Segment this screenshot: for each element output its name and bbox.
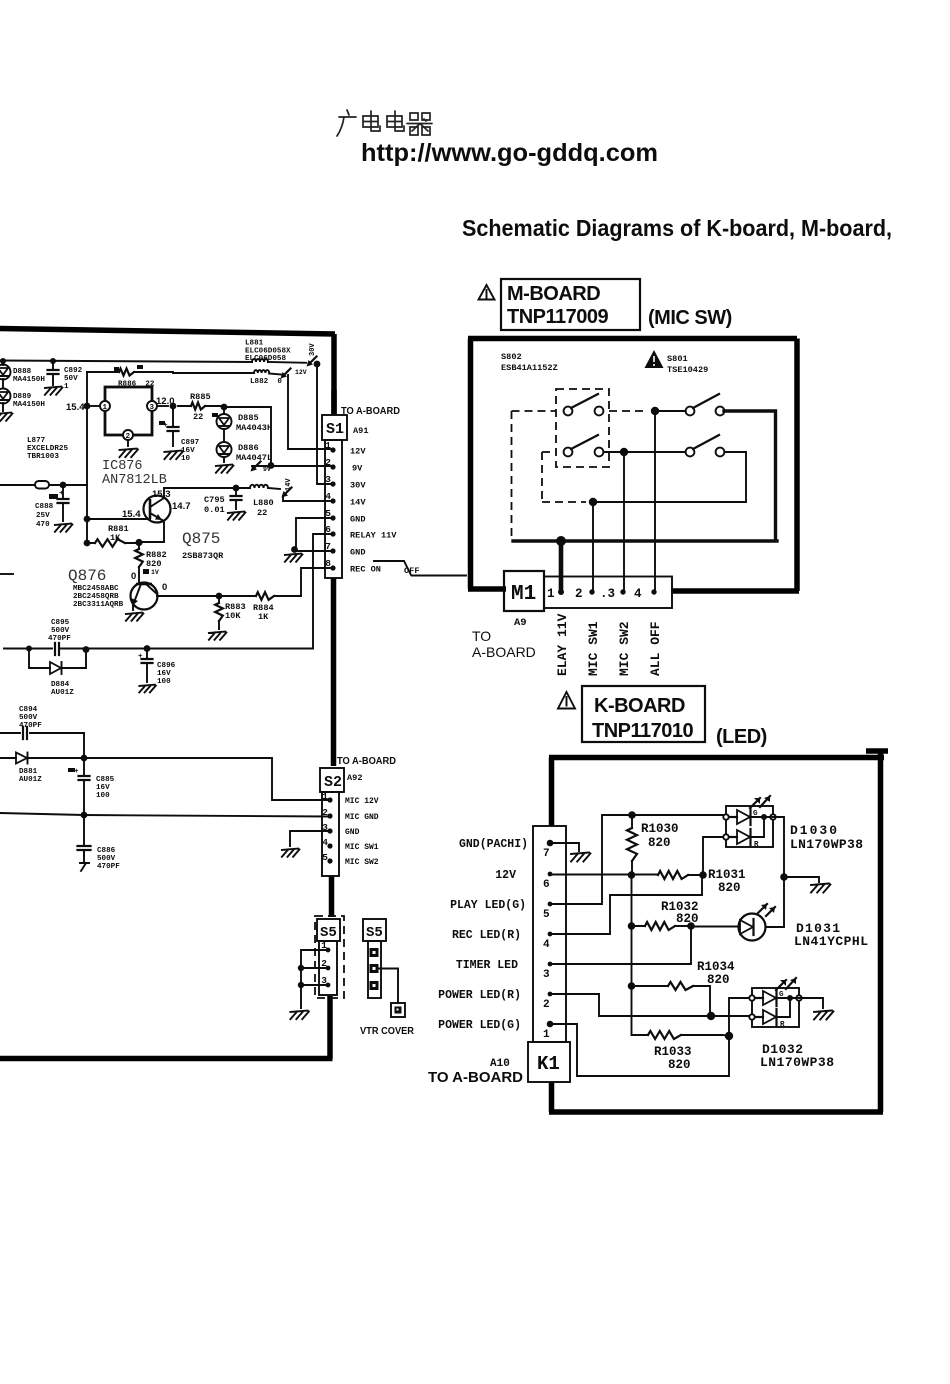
svg-text:R1030: R1030	[641, 822, 679, 836]
main board outline	[0, 329, 335, 1059]
warning triangle S801	[645, 350, 664, 368]
power-R wire pin2	[550, 994, 752, 1016]
mic12v wire	[84, 733, 330, 856]
node D888 rail	[0, 358, 6, 364]
dual LED D1032	[752, 988, 799, 1027]
svg-text:POWER LED(G): POWER LED(G)	[438, 1019, 521, 1032]
collector wire	[164, 487, 236, 489]
timer wire pin3	[550, 926, 691, 964]
svg-text:TNP117009: TNP117009	[507, 306, 609, 328]
capacitor C888	[62, 485, 64, 521]
svg-text:R: R	[754, 841, 759, 849]
vtr cover pin	[391, 1003, 405, 1017]
power-G wire pin1	[550, 1024, 729, 1076]
svg-text:LN170WP38: LN170WP38	[790, 837, 863, 852]
svg-text:D885: D885	[238, 413, 259, 423]
svg-text:PLAY LED(G): PLAY LED(G)	[450, 899, 526, 912]
svg-text:R: R	[780, 1021, 785, 1029]
node R883	[216, 593, 223, 600]
svg-text:C888: C888	[35, 503, 54, 511]
S5 pin strip	[319, 941, 337, 995]
node D884 right	[83, 646, 90, 653]
diode D886	[223, 429, 225, 442]
S1 stub	[331, 390, 337, 415]
svg-text:2BC3311AQRB: 2BC3311AQRB	[73, 601, 124, 609]
warning triangle (M-board)	[479, 285, 495, 300]
M1 pin strip	[544, 577, 672, 609]
gnd wire S1 pins 5+7	[294, 518, 330, 551]
svg-text:16V: 16V	[157, 670, 171, 678]
node Q875 emitter	[84, 516, 91, 523]
svg-text:S5: S5	[320, 925, 337, 941]
14V wire to S1-4	[283, 496, 330, 501]
svg-text:4: 4	[325, 491, 331, 502]
diode D884	[29, 648, 86, 668]
svg-text:2: 2	[543, 999, 550, 1011]
svg-text:+: +	[59, 490, 64, 498]
node C897	[170, 403, 177, 410]
svg-text:15.3: 15.3	[152, 489, 171, 500]
svg-text:K-BOARD: K-BOARD	[594, 695, 685, 717]
svg-text:5: 5	[322, 852, 328, 863]
capacitor C885	[79, 776, 90, 780]
IC876 pin2	[123, 430, 133, 440]
svg-text:14V: 14V	[285, 478, 293, 491]
svg-text:ELC06D058: ELC06D058	[245, 355, 286, 363]
warning triangle (K-board)	[558, 692, 575, 709]
svg-text:D884: D884	[51, 681, 70, 689]
svg-text:12V: 12V	[350, 447, 366, 457]
node MIC-SW2	[620, 448, 628, 456]
node R1034 in	[628, 982, 636, 990]
wattage marks R886	[114, 367, 119, 371]
K-board label box	[582, 686, 705, 742]
svg-text:LN170WP38: LN170WP38	[760, 1055, 834, 1070]
svg-text:TO A-BOARD: TO A-BOARD	[428, 1069, 523, 1086]
connector S2 box	[320, 768, 344, 792]
ground (S5)	[290, 1011, 309, 1020]
node L877	[60, 482, 67, 489]
K-board outline	[549, 753, 884, 1112]
relay 11V rail	[4, 534, 330, 649]
svg-text:AN7812LB: AN7812LB	[102, 473, 167, 488]
resistor R883	[218, 596, 220, 629]
svg-text:2: 2	[575, 587, 583, 601]
node R1032 in	[628, 922, 636, 930]
svg-text:22: 22	[257, 508, 267, 518]
resistor R886	[87, 371, 173, 373]
dual LED D1030	[726, 806, 773, 847]
ground (Q876)	[126, 613, 143, 621]
S5-cover pins	[370, 948, 379, 957]
svg-text:500V: 500V	[51, 627, 70, 635]
svg-text:S5: S5	[366, 925, 383, 941]
svg-text:MBC2458ABC: MBC2458ABC	[73, 585, 119, 593]
diode D881	[0, 757, 84, 759]
K1 pins and numbers	[547, 840, 554, 847]
ground (C795)	[228, 512, 246, 520]
node IC876 pin1	[84, 403, 91, 410]
svg-text:MIC SW2: MIC SW2	[617, 621, 632, 676]
svg-text:http://www.go-gddq.com: http://www.go-gddq.com	[361, 139, 658, 167]
svg-text:3: 3	[543, 969, 550, 981]
svg-text:1: 1	[547, 587, 555, 601]
svg-text:GND: GND	[345, 828, 360, 837]
svg-text:IC876: IC876	[102, 459, 143, 474]
connector S5 box	[317, 919, 340, 941]
svg-text:25V: 25V	[36, 512, 50, 520]
svg-text:2: 2	[325, 457, 331, 468]
svg-text:TO A-BOARD: TO A-BOARD	[341, 406, 400, 417]
node Q875 base	[135, 539, 142, 546]
svg-text:M-BOARD: M-BOARD	[507, 283, 600, 305]
svg-text:3: 3	[322, 822, 328, 833]
svg-text:MIC 12V: MIC 12V	[345, 797, 379, 806]
svg-text:OFF: OFF	[404, 566, 419, 576]
svg-text:6: 6	[543, 879, 550, 891]
capacitor C896	[146, 648, 148, 682]
svg-text:TSE10429: TSE10429	[667, 365, 708, 375]
connector M1 box	[504, 571, 544, 611]
svg-text:1: 1	[64, 383, 69, 391]
node ALL-OFF	[651, 407, 659, 415]
svg-text:TBR1003: TBR1003	[27, 453, 59, 461]
M1 pin contacts	[558, 589, 564, 595]
svg-text:820: 820	[718, 881, 741, 895]
svg-text:5: 5	[325, 508, 331, 519]
svg-text:ESB41A1152Z: ESB41A1152Z	[501, 363, 558, 373]
svg-text:9V: 9V	[263, 466, 271, 473]
wire D1032 to ground	[799, 998, 823, 1008]
svg-text:7: 7	[543, 848, 550, 860]
svg-text:GND: GND	[350, 515, 365, 525]
svg-text:AU01Z: AU01Z	[19, 776, 42, 784]
mic gnd wire	[0, 813, 329, 817]
svg-text:MIC SW2: MIC SW2	[345, 858, 379, 867]
svg-text:820: 820	[676, 912, 699, 926]
svg-text:MA4043H: MA4043H	[236, 423, 272, 433]
svg-text:MA4150H: MA4150H	[13, 376, 45, 384]
svg-text:A-BOARD: A-BOARD	[472, 644, 536, 660]
inductor L877	[0, 484, 62, 486]
svg-text:TNP117010: TNP117010	[592, 720, 694, 742]
svg-text:.3: .3	[600, 587, 615, 601]
S1 pin strip	[325, 440, 342, 578]
svg-text:L880: L880	[253, 498, 274, 508]
svg-text:4: 4	[322, 837, 328, 848]
diode D889	[0, 389, 11, 404]
inductor L881	[252, 359, 268, 362]
svg-text:R1031: R1031	[708, 868, 746, 882]
svg-text:D1030: D1030	[790, 823, 837, 838]
S2 pin strip	[322, 792, 339, 876]
svg-text:7: 7	[325, 541, 331, 552]
svg-text:3: 3	[325, 474, 331, 485]
svg-text:Q875: Q875	[182, 530, 220, 548]
inductor L880	[236, 488, 280, 489]
diode D885	[223, 407, 225, 414]
svg-text:30V: 30V	[350, 481, 366, 491]
node 12V-R1030	[628, 871, 636, 879]
svg-text:5: 5	[543, 909, 550, 921]
IC876 pin1	[100, 401, 110, 411]
svg-text:ALL OFF: ALL OFF	[648, 621, 663, 676]
svg-text:MIC SW1: MIC SW1	[586, 621, 601, 676]
svg-text:C897: C897	[181, 439, 200, 447]
svg-text:S802: S802	[501, 352, 522, 362]
resistor R884	[219, 595, 301, 597]
svg-text:A92: A92	[347, 773, 362, 783]
svg-text:+: +	[138, 653, 143, 661]
node C795	[233, 485, 240, 492]
svg-text:470PF: 470PF	[48, 635, 71, 643]
svg-text:M1: M1	[511, 583, 536, 606]
svg-text:100: 100	[157, 678, 171, 686]
svg-text:3: 3	[150, 404, 155, 412]
svg-text:TO A-BOARD: TO A-BOARD	[337, 756, 396, 767]
M-board outline	[468, 339, 799, 592]
resistor R1031	[658, 871, 688, 879]
svg-text:30V: 30V	[309, 343, 317, 356]
svg-text:S801: S801	[667, 354, 688, 364]
regulator IC876 box	[105, 387, 152, 435]
node 9V	[268, 462, 275, 469]
resistor R885	[178, 405, 224, 407]
svg-text:MA4150H: MA4150H	[13, 401, 45, 409]
svg-text:C892: C892	[64, 367, 83, 375]
svg-text:Q876: Q876	[68, 567, 106, 585]
svg-text:GND: GND	[350, 548, 365, 558]
svg-text:820: 820	[707, 973, 730, 987]
ground (pin7)	[571, 853, 590, 862]
resistor R881	[87, 542, 139, 544]
svg-text:1: 1	[322, 791, 328, 802]
svg-text:D886: D886	[238, 443, 259, 453]
svg-text:14V: 14V	[350, 498, 366, 508]
left vertical rail	[86, 372, 88, 543]
svg-text:820: 820	[668, 1058, 691, 1072]
node R1031 out	[699, 871, 707, 879]
S5 gnd wires	[301, 950, 328, 1008]
connector S5-cover box	[363, 919, 386, 941]
ganged switch dashed box	[556, 389, 609, 467]
LED D1031	[739, 914, 766, 941]
ground (D1032)	[814, 1011, 833, 1020]
svg-text:50V: 50V	[64, 375, 78, 383]
svg-text:R885: R885	[190, 392, 211, 402]
wire D1030 to ground	[773, 817, 819, 927]
svg-text:820: 820	[146, 559, 161, 569]
rec on/off wire	[301, 568, 330, 596]
svg-text:(LED): (LED)	[716, 726, 767, 748]
connector S1 box	[322, 415, 347, 440]
gnd wire pin7	[550, 843, 579, 851]
node C885 top	[81, 755, 88, 762]
ground (C896)	[139, 685, 156, 693]
node R1030 top	[628, 811, 636, 819]
svg-text:D881: D881	[19, 768, 38, 776]
svg-text:1: 1	[103, 404, 108, 412]
node MIC-SW1	[589, 498, 597, 506]
play-LED wire pin5	[550, 815, 723, 904]
resistor R1032	[632, 925, 692, 927]
svg-text:A91: A91	[353, 426, 368, 436]
node 30V	[314, 361, 321, 368]
svg-text:1K: 1K	[110, 533, 121, 543]
svg-text:2: 2	[322, 807, 328, 818]
ground (R883)	[209, 632, 227, 640]
s2 gnd wire	[290, 831, 329, 846]
svg-text:MIC GND: MIC GND	[345, 813, 379, 822]
svg-text:S1: S1	[326, 421, 344, 438]
svg-text:C886: C886	[97, 847, 116, 855]
ground (S1)	[285, 554, 303, 562]
stub wire	[0, 573, 13, 575]
svg-text:470PF: 470PF	[97, 863, 120, 871]
svg-text:22: 22	[193, 412, 203, 422]
svg-text:Schematic Diagrams of K-board,: Schematic Diagrams of K-board, M-board,	[462, 215, 892, 241]
svg-text:L881: L881	[245, 340, 264, 348]
svg-text:TIMER LED: TIMER LED	[456, 959, 518, 972]
M-board label box	[501, 279, 640, 330]
30V drop to S1-3	[317, 364, 330, 484]
svg-text:ELAY 11V: ELAY 11V	[555, 613, 570, 676]
svg-text:C896: C896	[157, 662, 176, 670]
svg-text:100: 100	[96, 792, 110, 800]
svg-text:R1033: R1033	[654, 1045, 692, 1059]
resistor R1034	[632, 986, 711, 1016]
12V off-page arrow	[283, 369, 291, 377]
svg-text:15.4: 15.4	[66, 402, 85, 413]
svg-text:VTR COVER: VTR COVER	[360, 1026, 415, 1037]
30V rail	[0, 361, 306, 363]
svg-text:TO: TO	[472, 628, 491, 644]
rec-LED wire pin4	[550, 875, 702, 934]
svg-text:C795: C795	[204, 495, 225, 505]
S2 pins	[327, 797, 332, 802]
svg-text:1: 1	[543, 1029, 550, 1041]
svg-text:1K: 1K	[258, 612, 269, 622]
IC876 pin3	[147, 401, 157, 411]
node power-R	[707, 1012, 715, 1020]
svg-text:6: 6	[325, 524, 331, 535]
svg-text:1V: 1V	[151, 569, 159, 576]
ground (D888)	[0, 413, 12, 421]
svg-text:RELAY 11V: RELAY 11V	[350, 531, 397, 541]
inductor L882	[173, 373, 281, 375]
svg-text:0: 0	[162, 582, 167, 593]
svg-text:470: 470	[36, 521, 50, 529]
resistor R882	[138, 543, 140, 583]
svg-text:AU01Z: AU01Z	[51, 689, 74, 697]
capacitor C897	[172, 406, 174, 446]
K1 connector strip	[533, 826, 566, 1042]
svg-text:12V: 12V	[495, 869, 516, 882]
node D885	[221, 404, 228, 411]
svg-text:REC ON: REC ON	[350, 565, 381, 575]
transistor Q875	[144, 496, 171, 523]
svg-text:9V: 9V	[352, 464, 363, 474]
ground (C888)	[55, 524, 73, 532]
svg-text:14.7: 14.7	[172, 501, 191, 512]
svg-text:G: G	[779, 991, 784, 999]
svg-text:(MIC SW): (MIC SW)	[648, 307, 732, 329]
12V rail	[550, 874, 703, 877]
ground (S2-3)	[282, 849, 300, 857]
relay wire (thick)	[513, 411, 777, 541]
12V drop to S1-1	[288, 375, 330, 449]
svg-text:G: G	[753, 810, 758, 818]
svg-text:4: 4	[543, 939, 550, 951]
svg-text:REC LED(R): REC LED(R)	[452, 929, 521, 942]
svg-text:500V: 500V	[97, 855, 116, 863]
svg-text:10: 10	[181, 455, 191, 463]
14V off-page arrow	[284, 488, 292, 496]
svg-text:S2: S2	[324, 774, 342, 791]
svg-text:2SB873QR: 2SB873QR	[182, 551, 224, 561]
ground (IC876)	[120, 449, 138, 458]
S5 dashed outline	[315, 916, 344, 998]
svg-text:L877: L877	[27, 437, 46, 445]
svg-text:K1: K1	[537, 1053, 560, 1075]
node R1033 out	[725, 1032, 733, 1040]
node R1032 out	[687, 922, 695, 930]
S1 pins	[330, 447, 335, 452]
svg-text:MA4047L: MA4047L	[236, 453, 272, 463]
svg-text:D888: D888	[13, 368, 32, 376]
node R881	[84, 540, 91, 547]
svg-text:GND(PACHI): GND(PACHI)	[459, 838, 528, 851]
svg-text:500V: 500V	[19, 714, 38, 722]
ground (C897)	[164, 451, 183, 460]
svg-text:12V: 12V	[295, 369, 307, 376]
svg-text:L882 0: L882 0	[250, 378, 282, 386]
svg-text:16V: 16V	[96, 784, 110, 792]
svg-text:A9: A9	[514, 617, 527, 629]
svg-text:8: 8	[325, 558, 331, 569]
connector K1 box	[528, 1042, 570, 1082]
capacitor C886	[78, 846, 91, 850]
svg-text:0.01: 0.01	[204, 505, 225, 515]
svg-text:0: 0	[131, 571, 136, 582]
svg-text:15.4: 15.4	[122, 509, 141, 520]
svg-text:MIC SW1: MIC SW1	[345, 843, 379, 852]
node C896	[144, 645, 151, 652]
switch S802-a	[564, 407, 573, 416]
node C886 top	[81, 812, 88, 819]
svg-text:2BC2458QRB: 2BC2458QRB	[73, 593, 119, 601]
svg-text:R1034: R1034	[697, 960, 735, 974]
9V off-page arrow	[253, 462, 261, 470]
svg-text:820: 820	[648, 836, 671, 850]
svg-text:C895: C895	[51, 619, 70, 627]
ground (C892)	[45, 387, 63, 395]
S5 pins	[326, 948, 331, 953]
watermark hanzi logo	[337, 110, 432, 136]
svg-text:LN41YCPHL: LN41YCPHL	[794, 934, 868, 949]
svg-text:EXCELDR25: EXCELDR25	[27, 445, 68, 453]
capacitor C892	[50, 358, 56, 364]
capacitor C894	[0, 732, 84, 734]
ground (D1030)	[811, 884, 830, 893]
svg-text:D889: D889	[13, 393, 32, 401]
svg-text:C885: C885	[96, 776, 115, 784]
switch S801-b	[686, 448, 695, 457]
resistor R1033	[632, 1035, 730, 1036]
switch S801-a	[686, 407, 695, 416]
node D884 left	[26, 646, 32, 652]
capacitor C795	[235, 488, 237, 509]
